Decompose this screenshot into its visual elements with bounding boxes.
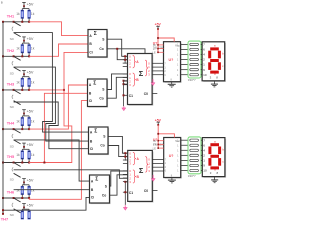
svg-text:C1: C1 — [129, 191, 133, 195]
svg-text:TH6: TH6 — [7, 190, 15, 195]
svg-text:LE: LE — [153, 146, 157, 150]
svg-text:+5V: +5V — [155, 23, 162, 27]
svg-text:TH7: TH7 — [1, 216, 8, 221]
svg-text:2: 2 — [203, 58, 205, 62]
svg-text:Ci: Ci — [91, 196, 94, 200]
svg-text:SD: SD — [10, 144, 15, 148]
svg-text:1k: 1k — [16, 153, 20, 157]
svg-text:SD: SD — [10, 105, 15, 109]
svg-text:1k: 1k — [16, 120, 20, 124]
svg-text:TH2: TH2 — [7, 48, 15, 53]
svg-text:4: 4 — [203, 148, 205, 152]
svg-text:330*7: 330*7 — [188, 78, 196, 82]
svg-text:+5V: +5V — [27, 143, 34, 147]
svg-text:U?: U? — [169, 58, 174, 62]
svg-text:C1: C1 — [129, 94, 133, 98]
svg-text:+5V: +5V — [27, 204, 34, 208]
svg-text:1k: 1k — [16, 12, 20, 16]
svg-text:1k: 1k — [16, 188, 20, 192]
svg-text:TH5: TH5 — [7, 154, 15, 159]
svg-text:1k: 1k — [31, 80, 35, 84]
svg-text:Ci: Ci — [90, 147, 93, 151]
svg-text:1: 1 — [203, 159, 205, 163]
svg-text:Σ: Σ — [139, 69, 144, 78]
svg-text:Σ: Σ — [93, 81, 96, 87]
svg-text:+5V: +5V — [27, 71, 34, 75]
svg-text:+5V: +5V — [27, 110, 34, 114]
svg-text:9: 9 — [203, 68, 205, 72]
svg-text:10: 10 — [203, 73, 207, 77]
svg-text:6: 6 — [203, 48, 205, 52]
svg-text:+5V: +5V — [27, 37, 34, 41]
svg-text:1k: 1k — [31, 188, 35, 192]
svg-text:2: 2 — [203, 153, 205, 157]
svg-text:7: 7 — [203, 43, 205, 47]
svg-text:+5V: +5V — [155, 119, 162, 123]
svg-text:TH3: TH3 — [7, 82, 15, 87]
svg-text:1k: 1k — [31, 153, 35, 157]
svg-text:1k: 1k — [16, 47, 20, 51]
svg-text:U?: U? — [169, 154, 174, 158]
svg-text:+5V: +5V — [27, 2, 34, 6]
svg-text:10: 10 — [203, 169, 207, 173]
svg-text:Co: Co — [99, 96, 103, 100]
svg-text:SD: SD — [10, 37, 15, 41]
svg-text:C0: C0 — [144, 189, 148, 193]
svg-text:Σ: Σ — [95, 177, 98, 183]
svg-text:LE: LE — [152, 51, 156, 55]
svg-text:TH4: TH4 — [7, 121, 15, 126]
svg-text:1: 1 — [203, 63, 205, 67]
svg-text:6: 6 — [203, 143, 205, 147]
svg-text:9: 9 — [203, 164, 205, 168]
svg-text:1k: 1k — [31, 12, 35, 16]
svg-text:SD: SD — [10, 178, 15, 182]
svg-text:Σ: Σ — [139, 166, 144, 175]
svg-text:4: 4 — [203, 53, 205, 57]
svg-text:Ci: Ci — [89, 51, 92, 55]
svg-text:SD: SD — [10, 213, 15, 217]
svg-text:C0: C0 — [144, 92, 148, 96]
svg-text:1k: 1k — [16, 80, 20, 84]
svg-text:B: B — [1, 0, 3, 4]
svg-text:Σ: Σ — [94, 31, 97, 37]
svg-text:Ci: Ci — [89, 99, 92, 103]
svg-text:SD: SD — [10, 72, 15, 76]
svg-text:1k: 1k — [31, 47, 35, 51]
svg-text:1k: 1k — [31, 120, 35, 124]
svg-text:Co: Co — [99, 47, 103, 51]
svg-text:Co: Co — [102, 193, 106, 197]
svg-text:Σ: Σ — [94, 129, 97, 135]
svg-text:7: 7 — [203, 138, 205, 142]
svg-text:TH1: TH1 — [7, 13, 15, 18]
svg-text:Co: Co — [100, 144, 104, 148]
svg-text:+5V: +5V — [27, 179, 34, 183]
svg-text:330*7: 330*7 — [188, 174, 196, 178]
